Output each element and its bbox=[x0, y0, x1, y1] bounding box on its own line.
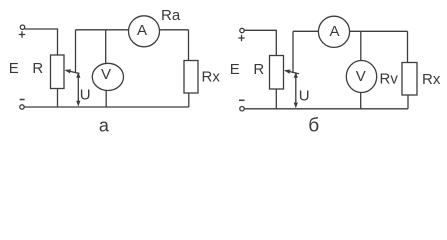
bottom rail (circuit a) bbox=[25, 106, 189, 108]
wire Rx bottom to bottom rail (circuit b) bbox=[407, 95, 409, 109]
top rail left segment (circuit b) bbox=[293, 30, 318, 32]
svg-text:а: а bbox=[99, 116, 110, 136]
resistor Rx (circuit a) bbox=[184, 61, 198, 94]
svg-text:V: V bbox=[101, 66, 111, 83]
svg-text:б: б bbox=[308, 115, 319, 136]
resistor R (circuit a) bbox=[51, 55, 65, 89]
svg-text:R: R bbox=[253, 61, 264, 78]
wire R bottom to bottom rail (circuit b) bbox=[275, 89, 277, 109]
svg-text:V: V bbox=[356, 68, 366, 85]
wiper arrow of rheostat R (circuit a) bbox=[66, 70, 80, 73]
svg-text:U: U bbox=[80, 87, 91, 104]
svg-text:U: U bbox=[299, 88, 310, 105]
wire from + terminal to R top (circuit b) bbox=[244, 30, 276, 55]
voltmeter V (circuit b) bbox=[346, 61, 376, 93]
resistor R (circuit b) bbox=[270, 56, 284, 90]
wire wiper tap up to top rail (circuit b) bbox=[292, 31, 294, 72]
svg-text:Rx: Rx bbox=[202, 69, 221, 86]
wire wiper tap up to top rail (circuit a) bbox=[75, 30, 77, 73]
wiper arrow of rheostat R (circuit b) bbox=[286, 71, 300, 74]
svg-text:Rv: Rv bbox=[380, 71, 399, 88]
wire top rail to voltmeter (circuit b) bbox=[360, 31, 362, 60]
top rail left segment (circuit a) bbox=[76, 29, 129, 31]
svg-text:A: A bbox=[137, 22, 147, 39]
terminal + (circuit a) bbox=[20, 25, 24, 29]
wire R bottom to bottom rail (circuit a) bbox=[57, 89, 59, 108]
minus sign (circuit b) bbox=[239, 99, 245, 101]
svg-text:R: R bbox=[32, 60, 43, 77]
voltmeter V (circuit a) bbox=[92, 63, 123, 90]
wire top rail to voltmeter (circuit a) bbox=[105, 30, 107, 64]
resistor Rx (circuit b) bbox=[402, 63, 417, 96]
wire rail corner down to Rx (circuit b) bbox=[407, 31, 409, 62]
terminal + (circuit b) bbox=[240, 28, 244, 32]
ammeter A (circuit b) bbox=[318, 16, 349, 47]
svg-text:Rx: Rx bbox=[422, 71, 441, 88]
wire from + terminal to R top (circuit a) bbox=[25, 29, 58, 55]
terminal - (circuit b) bbox=[240, 107, 244, 111]
ammeter A (circuit a) bbox=[129, 16, 160, 47]
svg-text:E: E bbox=[230, 61, 240, 78]
top rail right segment (circuit a) bbox=[160, 29, 189, 31]
wire rail corner down to Rx (circuit a) bbox=[188, 30, 190, 61]
svg-text:A: A bbox=[329, 23, 339, 40]
voltage arrow U (circuit b) bbox=[295, 75, 297, 105]
voltage arrow U (circuit a) bbox=[77, 75, 79, 104]
plus sign (circuit a) bbox=[19, 31, 25, 37]
minus sign (circuit a) bbox=[20, 99, 25, 101]
wire Rx bottom to bottom rail (circuit a) bbox=[188, 93, 190, 107]
terminal - (circuit a) bbox=[20, 105, 24, 109]
svg-text:Ra: Ra bbox=[161, 7, 181, 24]
wire voltmeter to bottom rail (circuit a) bbox=[105, 91, 107, 108]
plus sign (circuit b) bbox=[238, 35, 244, 41]
wire voltmeter to bottom rail (circuit b) bbox=[360, 93, 362, 109]
top rail right segment (circuit b) bbox=[350, 30, 408, 32]
bottom rail (circuit b) bbox=[244, 108, 408, 110]
svg-text:E: E bbox=[9, 60, 19, 77]
